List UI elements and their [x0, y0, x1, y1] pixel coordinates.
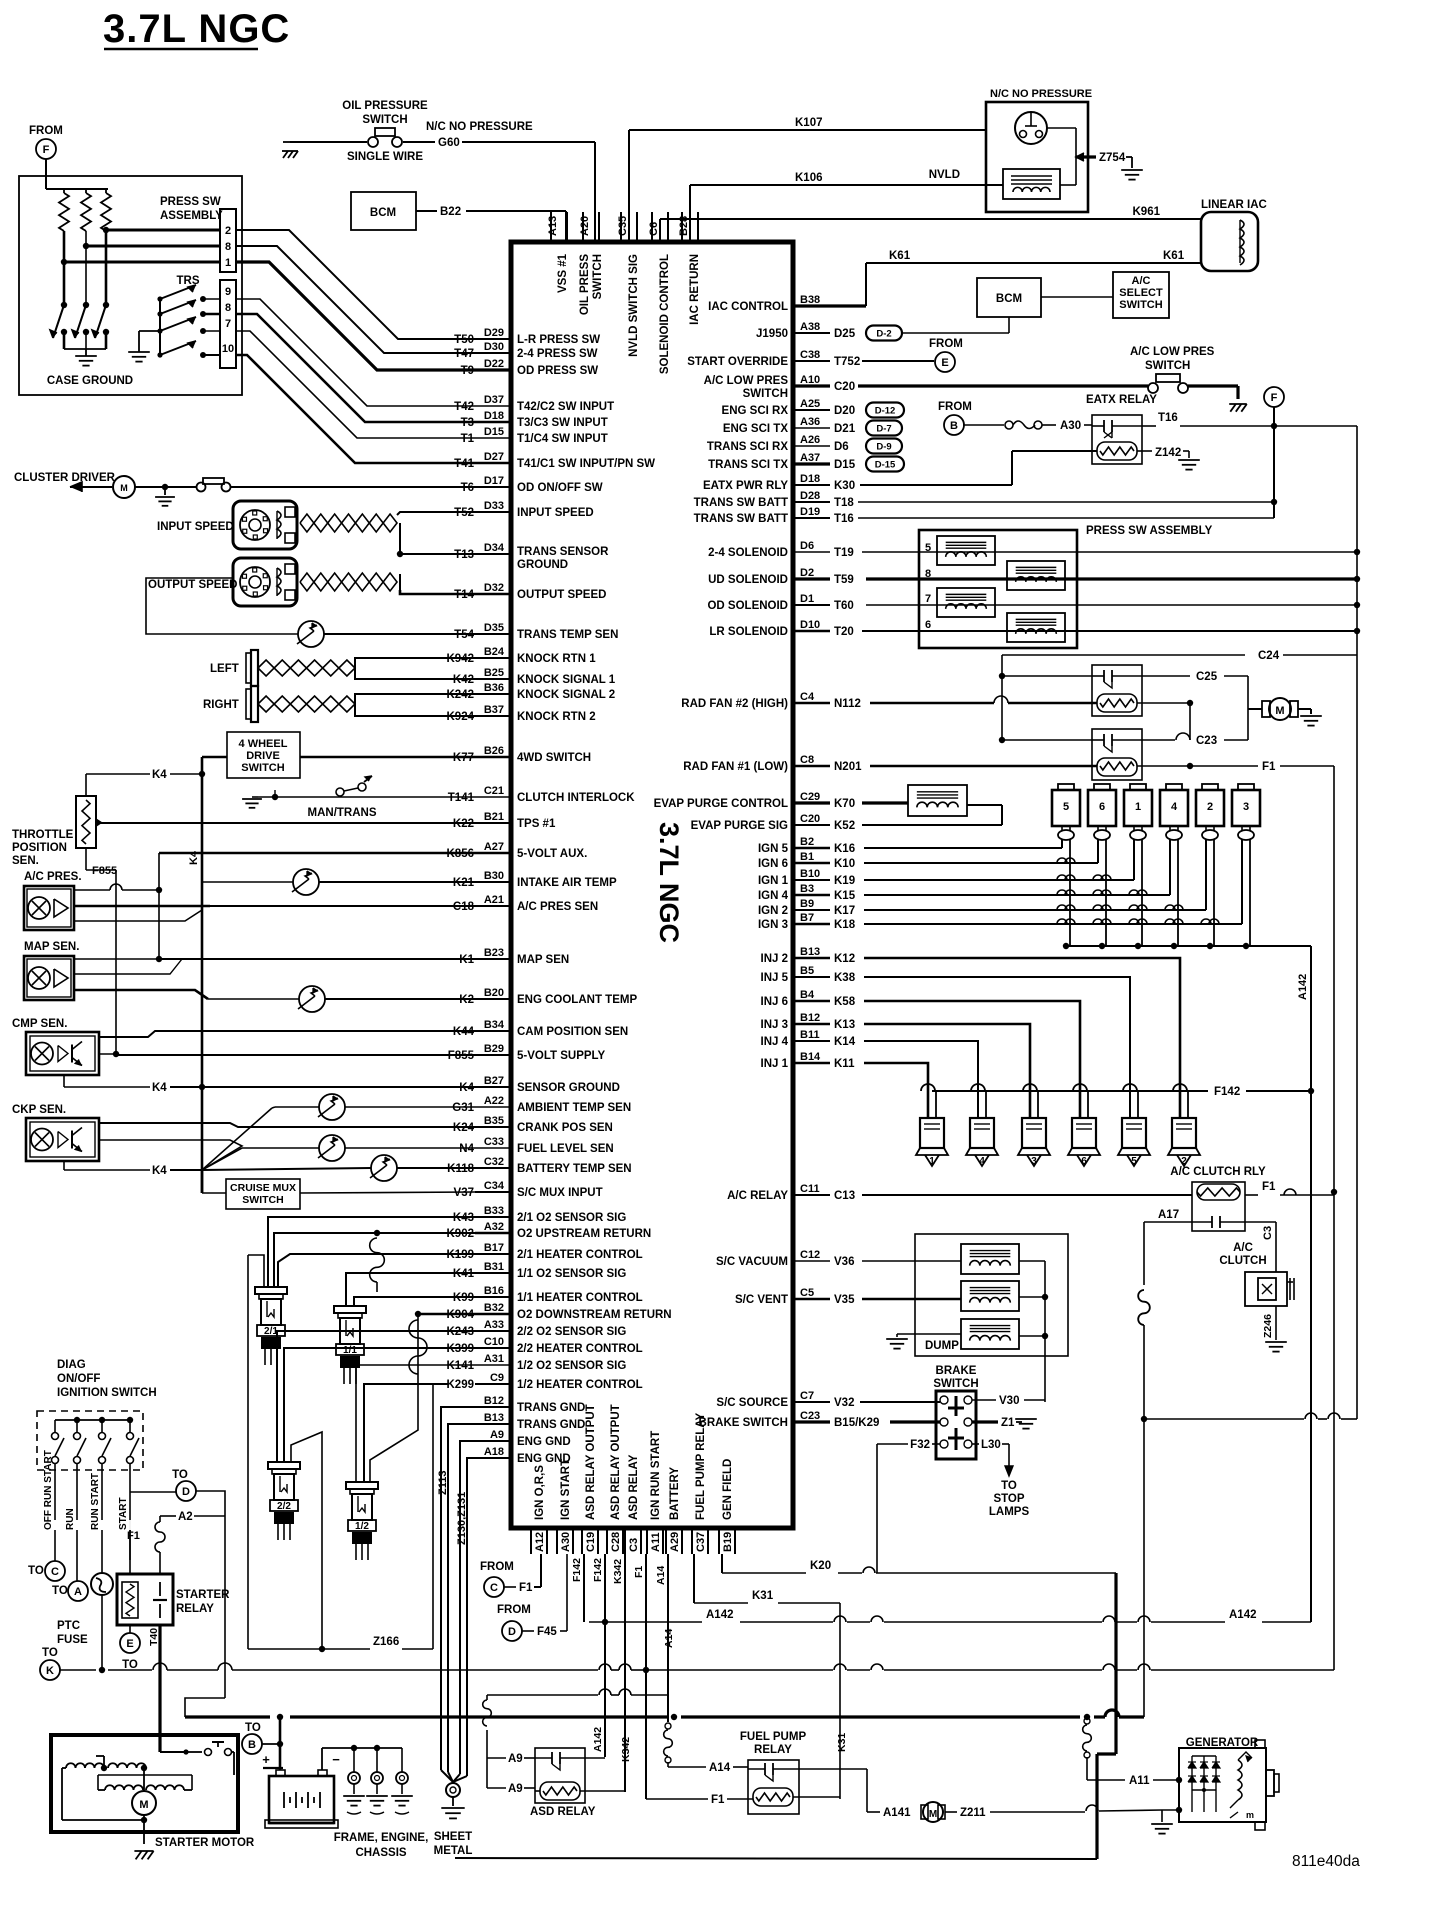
svg-text:4: 4 — [979, 1156, 985, 1167]
wire relay1 coil to junction — [1137, 702, 1190, 704]
svg-text:SWITCH: SWITCH — [933, 1378, 978, 1390]
wire F32 — [932, 1443, 940, 1445]
svg-text:LR SOLENOID: LR SOLENOID — [709, 626, 788, 638]
svg-text:4 WHEEL: 4 WHEEL — [239, 738, 288, 750]
wire INJ row to injector x932 — [864, 1063, 928, 1118]
PCM right pin A26 TRANS SCI RX — [793, 445, 830, 447]
svg-text:B27: B27 — [484, 1075, 504, 1087]
svg-text:A14: A14 — [655, 1566, 667, 1585]
svg-text:C13: C13 — [834, 1190, 855, 1202]
PCM left pin B31 1/1 O2 SENSOR SIG — [475, 1272, 511, 1274]
svg-text:1: 1 — [225, 257, 231, 269]
PCM bottom pin A29 BATTERY — [665, 1528, 667, 1554]
wire F1 A/C relay — [1245, 1194, 1258, 1196]
wire T52 — [397, 512, 475, 515]
battery minus wire — [321, 1748, 323, 1770]
svg-text:OUTPUT SPEED: OUTPUT SPEED — [517, 589, 606, 601]
wire K77 — [300, 756, 475, 759]
svg-text:B13: B13 — [484, 1412, 504, 1424]
svg-text:IGN 5: IGN 5 — [758, 843, 789, 855]
svg-text:INJ 4: INJ 4 — [761, 1036, 789, 1048]
PCM left pin D30 2-4 PRESS SW — [475, 352, 511, 354]
svg-text:C20: C20 — [800, 813, 820, 825]
svg-text:THROTTLE: THROTTLE — [12, 829, 74, 841]
wire L30 to stop lamps — [972, 1443, 979, 1445]
starter solenoid switch — [183, 1749, 188, 1754]
PCM left pin C33 FUEL LEVEL SEN — [475, 1147, 511, 1149]
O2 return squiggle 2 — [409, 1320, 427, 1374]
PCM top pin B28 — [681, 212, 683, 242]
svg-text:INJ 6: INJ 6 — [761, 996, 789, 1008]
Z130 Z131 verticals — [460, 1441, 487, 1774]
PCM left pin D27 T41/C1 SW INPUT/PN SW — [475, 462, 511, 465]
PCM right pin D19 TRANS SW BATT — [793, 517, 830, 519]
wire T20 LR solenoid — [862, 630, 1357, 632]
svg-text:B3: B3 — [800, 883, 814, 895]
svg-text:D35: D35 — [484, 622, 504, 634]
PCM left pin B21 TPS #1 — [475, 822, 511, 824]
PCM left pin B25 KNOCK SIGNAL 1 — [475, 678, 511, 680]
svg-text:K106: K106 — [795, 172, 823, 184]
ignition coil 1 ground wire — [1141, 840, 1143, 946]
TO D connector — [129, 1530, 131, 1560]
ignition coil 2 ground wire — [1213, 840, 1215, 946]
svg-text:1: 1 — [1135, 801, 1141, 813]
svg-text:A18: A18 — [484, 1446, 504, 1458]
PCM left pin B12 TRANS GND — [487, 1406, 511, 1408]
NVLD switch symbol — [1015, 112, 1047, 144]
Z211 wire to generator — [990, 1811, 1085, 1813]
svg-text:D28: D28 — [800, 490, 820, 502]
svg-text:T42: T42 — [454, 401, 474, 413]
svg-text:K31: K31 — [752, 1590, 774, 1602]
svg-text:6: 6 — [1099, 801, 1105, 813]
linear IAC box — [1201, 212, 1258, 271]
svg-text:OIL PRESS: OIL PRESS — [579, 254, 591, 315]
A/C select switch box — [1113, 272, 1169, 318]
BCM box top — [351, 192, 416, 230]
generator box — [1179, 1748, 1266, 1822]
fuse to EATX — [963, 424, 1004, 426]
wire T60 OD solenoid — [866, 604, 1357, 606]
svg-text:A30: A30 — [1060, 420, 1081, 432]
right edge vertical from T16 — [1356, 426, 1358, 655]
PCM main box — [511, 242, 793, 1528]
fuel level diagonal — [202, 1148, 242, 1170]
svg-text:EVAP PURGE CONTROL: EVAP PURGE CONTROL — [654, 798, 788, 810]
svg-text:POSITION: POSITION — [12, 842, 67, 854]
svg-text:D18: D18 — [484, 410, 504, 422]
svg-text:V36: V36 — [834, 1256, 854, 1268]
PCM left pin D22 OD PRESS SW — [475, 368, 511, 371]
svg-text:C: C — [51, 1566, 59, 1578]
svg-text:3.7L NGC: 3.7L NGC — [103, 7, 290, 51]
svg-text:M: M — [929, 1809, 937, 1820]
svg-text:DIAG: DIAG — [57, 1359, 86, 1371]
svg-text:5: 5 — [1131, 1156, 1137, 1167]
wire INJ row to injector x1184 — [864, 958, 1180, 1118]
O2 2/1 wires — [248, 1255, 264, 1287]
wire F1 ignition to relay coil — [129, 1530, 131, 1574]
svg-text:B20: B20 — [484, 987, 504, 999]
right edge vertical F1 — [1333, 766, 1335, 1670]
svg-text:K961: K961 — [1133, 206, 1161, 218]
fan motor — [1248, 708, 1262, 710]
svg-text:2: 2 — [225, 225, 231, 237]
battery feed vertical — [279, 1717, 282, 1770]
svg-text:4: 4 — [1171, 801, 1178, 813]
svg-text:VSS #1: VSS #1 — [557, 253, 569, 293]
svg-text:A27: A27 — [484, 841, 504, 853]
TRS connector strip 9-8-7-10 — [220, 280, 236, 368]
svg-text:SWITCH: SWITCH — [1145, 360, 1190, 372]
svg-text:A/C LOW PRES: A/C LOW PRES — [1130, 346, 1215, 358]
svg-text:CKP SEN.: CKP SEN. — [12, 1104, 66, 1116]
svg-text:L-R PRESS SW: L-R PRESS SW — [517, 334, 600, 346]
PCM left pin A22 AMBIENT TEMP SEN — [475, 1106, 511, 1108]
wire V30 — [972, 1399, 996, 1401]
svg-text:A/C PRES.: A/C PRES. — [24, 871, 82, 883]
PCM left pin C10 2/2 HEATER CONTROL — [475, 1347, 511, 1349]
starter motor field coils — [66, 1763, 104, 1768]
PCM right pin D2 UD SOLENOID — [793, 577, 830, 580]
svg-text:T1: T1 — [461, 433, 475, 445]
svg-text:ENG SCI RX: ENG SCI RX — [722, 405, 789, 417]
svg-text:T16: T16 — [834, 513, 854, 525]
wire K924 — [355, 704, 475, 716]
starter relay box — [117, 1574, 173, 1625]
svg-text:T3/C3 SW INPUT: T3/C3 SW INPUT — [517, 417, 608, 429]
brake switch box — [936, 1391, 976, 1459]
svg-text:B14: B14 — [800, 1051, 821, 1063]
ignition switch pole 3 — [101, 1420, 103, 1432]
svg-text:C29: C29 — [800, 791, 820, 803]
injector 2 — [1187, 1091, 1189, 1118]
wire INJ row to injector x1034 — [864, 1024, 1030, 1118]
svg-text:C32: C32 — [484, 1156, 504, 1168]
svg-text:D6: D6 — [800, 540, 814, 552]
svg-text:B23: B23 — [484, 947, 504, 959]
svg-text:PTC: PTC — [57, 1620, 80, 1632]
fan relay vertical feed — [1001, 655, 1003, 740]
svg-text:START OVERRIDE: START OVERRIDE — [687, 356, 788, 368]
svg-text:T1/C4 SW INPUT: T1/C4 SW INPUT — [517, 433, 608, 445]
C37 vertical to K31 — [693, 1554, 695, 1603]
PCM bottom pin A30 IGN START — [556, 1528, 558, 1554]
svg-text:CLUSTER DRIVER: CLUSTER DRIVER — [14, 472, 116, 484]
svg-text:A13: A13 — [547, 216, 559, 236]
svg-text:D: D — [182, 1486, 190, 1498]
svg-text:M: M — [120, 483, 128, 493]
svg-text:A/C: A/C — [1233, 1242, 1253, 1254]
svg-text:D34: D34 — [484, 542, 505, 554]
svg-text:D27: D27 — [484, 451, 504, 463]
svg-text:MAN/TRANS: MAN/TRANS — [308, 807, 377, 819]
fuel pump relay coil — [753, 1788, 793, 1806]
svg-text:K58: K58 — [834, 996, 856, 1008]
svg-text:B35: B35 — [484, 1115, 504, 1127]
svg-text:M: M — [139, 1799, 148, 1811]
PCM right pin C7 S/C SOURCE — [793, 1401, 830, 1403]
fan relay 1 box — [1092, 665, 1142, 716]
svg-text:INTAKE AIR TEMP: INTAKE AIR TEMP — [517, 877, 617, 889]
svg-text:BRAKE: BRAKE — [936, 1365, 977, 1377]
svg-text:A/C: A/C — [1132, 275, 1151, 287]
ignition coil 6 ground wire — [1105, 840, 1107, 946]
svg-text:B15/K29: B15/K29 — [834, 1417, 879, 1429]
svg-text:S/C VACUUM: S/C VACUUM — [716, 1256, 788, 1268]
svg-text:D33: D33 — [484, 500, 504, 512]
svg-text:N112: N112 — [834, 698, 861, 710]
svg-text:K15: K15 — [834, 890, 856, 902]
wire IGN row 4 — [864, 894, 1170, 896]
svg-text:A26: A26 — [800, 434, 820, 446]
wire T16 from EATX — [1142, 425, 1156, 427]
svg-text:2/2 HEATER CONTROL: 2/2 HEATER CONTROL — [517, 1343, 643, 1355]
coil ground bus to A142 — [1250, 945, 1311, 947]
svg-text:RELAY: RELAY — [754, 1744, 792, 1756]
PCM right pin D28 TRANS SW BATT — [793, 501, 830, 503]
svg-text:TO: TO — [28, 1565, 44, 1577]
injector bus hook — [1073, 1084, 1087, 1091]
svg-text:A11: A11 — [1129, 1775, 1150, 1787]
wire Z142 to ground — [1137, 450, 1152, 452]
svg-text:KNOCK SIGNAL 1: KNOCK SIGNAL 1 — [517, 674, 616, 686]
svg-text:ASSEMBLY: ASSEMBLY — [160, 210, 223, 222]
svg-text:D-2: D-2 — [876, 328, 891, 339]
PCM right pin B1 IGN 6 — [793, 862, 830, 865]
output speed twisted pair — [300, 573, 314, 591]
A/C pres wires — [74, 889, 110, 891]
wire pin1 — [64, 261, 220, 264]
F vertical wire right — [1273, 407, 1275, 518]
PCM right pin B3 IGN 4 — [793, 894, 830, 897]
svg-text:A/C CLUTCH RLY: A/C CLUTCH RLY — [1170, 1166, 1266, 1178]
wire A17 junction horizontal — [1144, 1418, 1304, 1420]
wire T19 2-4 solenoid — [862, 551, 1357, 553]
svg-text:2/1 HEATER CONTROL: 2/1 HEATER CONTROL — [517, 1249, 643, 1261]
wire OD switch to T6 — [230, 486, 475, 488]
svg-text:IAC CONTROL: IAC CONTROL — [708, 301, 788, 313]
svg-text:C3: C3 — [628, 1538, 640, 1552]
svg-text:IGN RUN START: IGN RUN START — [650, 1431, 662, 1520]
svg-text:IGN 4: IGN 4 — [758, 890, 789, 902]
svg-text:K10: K10 — [834, 858, 855, 870]
svg-text:A29: A29 — [669, 1532, 681, 1552]
injector bus hook — [921, 1084, 935, 1091]
PCM right pin B13 INJ 2 — [793, 957, 830, 960]
svg-text:FROM: FROM — [938, 401, 972, 413]
svg-text:A/C PRES SEN: A/C PRES SEN — [517, 901, 598, 913]
PCM right pin B7 IGN 3 — [793, 923, 830, 926]
wire K42 — [355, 668, 475, 679]
svg-text:LEFT: LEFT — [210, 663, 239, 675]
cruise mux switch — [201, 1170, 204, 1193]
svg-text:Z166: Z166 — [373, 1636, 399, 1648]
PCM left pin A18 ENG GND — [487, 1457, 511, 1459]
svg-text:MAP SEN: MAP SEN — [517, 954, 569, 966]
svg-text:9: 9 — [225, 286, 231, 298]
wire TRS10 to T41 diagonal — [236, 355, 475, 463]
PCM left pin A9 ENG GND — [487, 1440, 511, 1442]
PCM left pin B32 O2 DOWNSTREAM RETURN — [475, 1313, 511, 1316]
svg-text:K141: K141 — [447, 1360, 475, 1372]
svg-text:K14: K14 — [834, 1036, 856, 1048]
svg-text:T59: T59 — [834, 574, 854, 586]
svg-text:A30: A30 — [560, 1532, 572, 1552]
injector 4 — [985, 1091, 987, 1118]
svg-text:INPUT SPEED: INPUT SPEED — [157, 521, 234, 533]
PCM left pin C32 BATTERY TEMP SEN — [475, 1167, 511, 1169]
TO E connector — [129, 1625, 131, 1633]
O2 2/2 wires — [277, 1331, 475, 1462]
svg-text:ASD RELAY: ASD RELAY — [628, 1454, 640, 1520]
PCM right pin C11 A/C RELAY — [793, 1194, 830, 1196]
svg-text:B9: B9 — [800, 898, 814, 910]
ignition coil 1 — [1124, 790, 1152, 826]
wire C3 to A/C clutch — [1245, 1221, 1276, 1223]
sheet metal bolt — [441, 1770, 453, 1782]
svg-text:LINEAR IAC: LINEAR IAC — [1201, 199, 1267, 211]
svg-text:INJ 3: INJ 3 — [761, 1019, 789, 1031]
svg-text:F: F — [1271, 392, 1278, 404]
svg-text:D32: D32 — [484, 582, 504, 594]
A14 squiggle — [665, 1723, 671, 1729]
svg-text:C28: C28 — [610, 1532, 622, 1552]
A11 squiggle branch — [1084, 1718, 1090, 1724]
svg-text:A142: A142 — [706, 1609, 734, 1621]
wire V35 to servo — [862, 1298, 961, 1301]
case ground bus — [64, 348, 106, 350]
press sw assembly right box — [919, 530, 1077, 648]
A/C low pres switch symbol — [858, 384, 1148, 387]
svg-text:K16: K16 — [834, 843, 855, 855]
svg-text:A14: A14 — [663, 1629, 675, 1648]
injector bus hook — [1123, 1084, 1137, 1091]
svg-text:KNOCK RTN 2: KNOCK RTN 2 — [517, 711, 596, 723]
svg-text:T141: T141 — [448, 792, 475, 804]
svg-text:TO: TO — [245, 1722, 261, 1734]
svg-text:OD PRESS SW: OD PRESS SW — [517, 365, 598, 377]
ignition coil 5 ground wire — [1069, 840, 1071, 946]
svg-text:F1: F1 — [127, 1530, 140, 1542]
wire TRS9 to T42 diagonal — [236, 299, 475, 406]
PCM right pin B12 INJ 3 — [793, 1023, 830, 1026]
A14 vertical A29 — [667, 1554, 669, 1722]
wire A2 — [130, 1491, 176, 1493]
fan relay 2 box — [1092, 729, 1142, 780]
svg-text:D1: D1 — [800, 593, 814, 605]
generator coil — [1238, 1760, 1242, 1800]
svg-text:S/C SOURCE: S/C SOURCE — [716, 1397, 788, 1409]
PCM left pin B27 SENSOR GROUND — [475, 1086, 511, 1088]
generator internal ground marks — [1230, 1812, 1238, 1818]
PCM left pin A33 2/2 O2 SENSOR SIG — [475, 1330, 511, 1332]
svg-text:KNOCK RTN 1: KNOCK RTN 1 — [517, 653, 596, 665]
svg-text:NVLD SWITCH SIG: NVLD SWITCH SIG — [628, 254, 640, 357]
svg-text:1/1 HEATER CONTROL: 1/1 HEATER CONTROL — [517, 1292, 643, 1304]
svg-text:A9: A9 — [508, 1753, 523, 1765]
svg-text:D17: D17 — [484, 475, 504, 487]
svg-text:SWITCH: SWITCH — [743, 388, 788, 400]
vertical junction 159 — [158, 853, 160, 959]
ignition coil 3 — [1232, 790, 1260, 826]
svg-text:K: K — [46, 1665, 54, 1677]
solenoid coil OD — [937, 588, 995, 617]
svg-text:SEN.: SEN. — [12, 855, 39, 867]
svg-text:UD SOLENOID: UD SOLENOID — [708, 574, 788, 586]
oval connector D-9 — [866, 439, 902, 454]
wire C24 — [1002, 654, 1245, 656]
svg-text:C4: C4 — [800, 691, 815, 703]
injector bus hook — [971, 1084, 985, 1091]
PCM left pin B16 1/1 HEATER CONTROL — [475, 1296, 511, 1298]
ignition switch bus — [55, 1419, 130, 1421]
svg-text:INJ 5: INJ 5 — [761, 972, 789, 984]
wire TRS7 to T1 diagonal — [236, 331, 475, 438]
svg-text:D19: D19 — [800, 506, 820, 518]
ignition coil 4 — [1160, 790, 1188, 826]
svg-text:A37: A37 — [800, 452, 820, 464]
K31 vertical — [839, 1603, 841, 1799]
svg-text:C34: C34 — [484, 1180, 505, 1192]
svg-text:6: 6 — [1081, 1156, 1087, 1167]
wire C25 — [1142, 675, 1190, 677]
svg-text:RUN START: RUN START — [90, 1473, 101, 1530]
PCM left pin D17 OD ON/OFF SW — [475, 486, 511, 488]
wire pin8 — [86, 245, 220, 248]
svg-text:IGNITION SWITCH: IGNITION SWITCH — [57, 1387, 157, 1399]
svg-text:A25: A25 — [800, 398, 820, 410]
svg-text:STOP: STOP — [993, 1493, 1024, 1505]
ignition coil 6 — [1088, 790, 1116, 826]
svg-text:F: F — [43, 144, 50, 156]
PCM right pin D10 LR SOLENOID — [793, 630, 830, 633]
PCM right pin C12 S/C VACUUM — [793, 1260, 830, 1262]
injector 5 — [1137, 1091, 1139, 1118]
svg-text:SENSOR GROUND: SENSOR GROUND — [517, 1082, 620, 1094]
frame engine chassis bolts — [353, 1748, 355, 1772]
svg-text:D37: D37 — [484, 394, 504, 406]
svg-text:F1: F1 — [519, 1582, 533, 1594]
PCM right pin C29 EVAP PURGE CONTROL — [793, 801, 830, 804]
svg-text:A142: A142 — [592, 1727, 604, 1752]
A2 squiggle to starter relay — [155, 1522, 165, 1552]
PCM left pin D35 TRANS TEMP SEN — [475, 633, 511, 635]
svg-text:ENG SCI TX: ENG SCI TX — [723, 423, 789, 435]
injector F142 bus — [932, 1090, 1208, 1092]
wire K52 — [862, 824, 1002, 826]
coil ground bus — [1066, 945, 1250, 947]
svg-text:K31: K31 — [836, 1733, 848, 1752]
svg-text:BATTERY: BATTERY — [669, 1467, 681, 1520]
wire T18 row — [858, 501, 1274, 503]
svg-text:K38: K38 — [834, 972, 856, 984]
PCM right pin A36 ENG SCI TX — [793, 427, 830, 429]
svg-text:B4: B4 — [800, 989, 815, 1001]
svg-text:TRANS SCI TX: TRANS SCI TX — [708, 459, 788, 471]
TRS ground — [139, 330, 160, 332]
svg-text:V37: V37 — [454, 1187, 474, 1199]
svg-text:A142: A142 — [1229, 1609, 1257, 1621]
svg-text:LAMPS: LAMPS — [989, 1506, 1030, 1518]
starter motor ground — [143, 1832, 145, 1844]
svg-text:B30: B30 — [484, 870, 504, 882]
svg-text:D10: D10 — [800, 619, 820, 631]
PCM right pin A25 ENG SCI RX — [793, 409, 830, 411]
svg-text:B2: B2 — [800, 836, 814, 848]
svg-text:8: 8 — [225, 241, 231, 253]
